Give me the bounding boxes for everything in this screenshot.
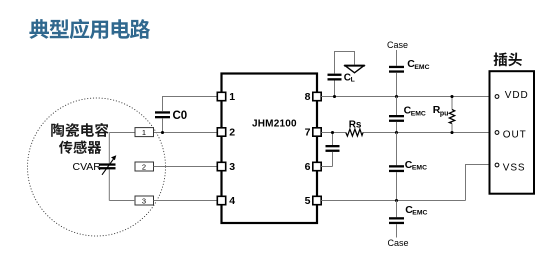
svg-text:4: 4 — [229, 195, 235, 207]
label CVAR — [73, 161, 102, 173]
svg-text:VDD: VDD — [505, 90, 529, 101]
label C0 — [173, 110, 188, 122]
svg-text:2: 2 — [229, 127, 235, 139]
node Rpu top — [450, 95, 453, 98]
wire terminal2 to pin3 — [154, 166, 218, 168]
capacitor C0 — [155, 111, 170, 132]
svg-text:1: 1 — [229, 91, 235, 103]
label CEMC 3 — [405, 159, 427, 172]
svg-text:2: 2 — [142, 162, 146, 171]
svg-text:EMC: EMC — [412, 165, 427, 172]
wire OUT bus pin7 to Rs — [321, 132, 346, 134]
sensor terminal box 2 — [135, 162, 154, 171]
pin OUT terminal circle — [495, 131, 499, 135]
node pin7 junction — [331, 131, 334, 134]
wire pin1 to C0 top (left bus y=96.5) — [163, 97, 218, 112]
label Rs — [349, 119, 362, 130]
wire OUT bus Rs to plug — [363, 132, 495, 134]
sensor terminal box 1 — [135, 128, 154, 137]
wire pin6 stub — [321, 166, 332, 168]
svg-text:6: 6 — [305, 161, 311, 173]
capacitor CEMC case top — [389, 50, 404, 97]
wire VSS from plug — [466, 165, 495, 201]
label Rpu — [433, 104, 449, 117]
IC label JHM2100 — [252, 119, 297, 130]
label CL — [344, 72, 355, 83]
label CEMC 1 — [407, 58, 429, 71]
pin VDD terminal circle — [495, 95, 499, 99]
capacitor across pin7-pin6 — [326, 133, 340, 167]
svg-text:L: L — [351, 76, 355, 83]
svg-text:EMC: EMC — [414, 64, 429, 71]
capacitor CL — [328, 52, 355, 97]
node junction at C0 bottom — [161, 131, 164, 134]
node CEMC1 junction — [395, 95, 398, 98]
resistor Rpu — [449, 97, 454, 133]
capacitor CEMC 2 (VDD to OUT) — [389, 97, 404, 133]
resistor Rs — [346, 129, 363, 136]
pin 3 — [217, 161, 235, 173]
sensor terminal box 3 — [135, 196, 154, 205]
svg-text:OUT: OUT — [503, 129, 527, 140]
pin 8 — [305, 91, 322, 103]
svg-text:1: 1 — [142, 128, 146, 137]
sensor label 陶瓷电容 传感器 — [51, 123, 108, 154]
capacitor CEMC 3 (OUT to VSS bus) — [389, 133, 404, 201]
label CEMC 2 — [404, 105, 426, 118]
label Case (top) — [387, 40, 408, 50]
svg-text:EMC: EMC — [412, 210, 427, 217]
pin 6 — [305, 161, 322, 173]
title 典型应用电路 — [29, 19, 150, 39]
svg-text:Case: Case — [388, 238, 409, 248]
svg-text:Case: Case — [387, 40, 408, 50]
svg-text:Rs: Rs — [349, 119, 362, 130]
svg-text:3: 3 — [229, 161, 235, 173]
capacitor CEMC 4 (case bottom) — [389, 201, 404, 238]
wire VSS bus y=200.5 — [321, 200, 465, 202]
variable capacitor CVAR — [99, 155, 116, 175]
label VDD — [505, 90, 529, 101]
pin 5 — [305, 195, 322, 207]
svg-text:3: 3 — [142, 196, 146, 205]
node CEMC2 junction — [395, 131, 398, 134]
svg-text:8: 8 — [305, 91, 311, 103]
svg-text:CVAR: CVAR — [73, 161, 102, 173]
label 插头 — [494, 53, 522, 67]
svg-text:C0: C0 — [173, 110, 188, 122]
wire sensor terminal1 row y=132 — [109, 132, 217, 134]
pin VSS terminal circle — [495, 163, 499, 167]
label Case (bottom) — [388, 238, 409, 248]
label OUT — [503, 129, 527, 140]
svg-text:VSS: VSS — [503, 162, 526, 173]
chassis ground triangle — [344, 66, 365, 73]
wire VDD bus y=96.5 pin8 to plug — [321, 96, 495, 98]
wire CVAR vertical branch — [108, 133, 110, 201]
svg-text:5: 5 — [305, 195, 311, 207]
node Rpu bottom — [450, 131, 453, 134]
svg-text:JHM2100: JHM2100 — [252, 119, 297, 130]
node CEMC3 junction — [395, 199, 398, 202]
pin 7 — [305, 127, 322, 139]
wire terminal3 row y=200.5 — [109, 200, 217, 202]
svg-text:7: 7 — [305, 127, 311, 139]
pin 1 — [217, 91, 235, 103]
label CEMC 4 — [405, 204, 427, 217]
label VSS — [503, 162, 526, 173]
svg-text:EMC: EMC — [411, 111, 426, 118]
connector J1 plug body — [490, 71, 535, 194]
svg-text:pu: pu — [440, 110, 449, 117]
pin 4 — [217, 195, 235, 207]
IC U1 body — [222, 74, 318, 224]
sensor boundary dashed circle — [28, 98, 166, 236]
pin 2 — [217, 127, 235, 139]
node CL junction — [333, 95, 336, 98]
